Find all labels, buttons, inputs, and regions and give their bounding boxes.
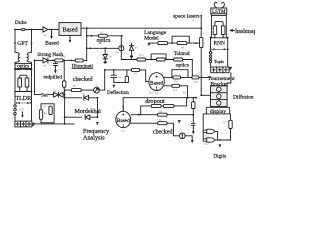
arrow down Based: [51, 30, 53, 37]
resistor R7: [177, 42, 187, 45]
wire diode to node: [48, 59, 55, 61]
block display: [206, 107, 229, 114]
resistor R18: [158, 113, 167, 116]
svg-text:R4: R4: [134, 73, 138, 76]
resistor R19: [158, 122, 167, 125]
resistor R21 vertical: [39, 110, 42, 120]
block LSTM: [211, 8, 227, 14]
node dot GPT right: [31, 42, 33, 44]
wire optics bottom bar: [15, 63, 32, 70]
arrow down under box: [69, 35, 71, 40]
arrow down rowC: [96, 117, 99, 125]
svg-text:R12: R12: [173, 89, 178, 92]
node dot F: [14, 91, 16, 93]
current source I1: [119, 46, 124, 51]
svg-text:Dz: Dz: [54, 90, 58, 93]
wire based2 row1: [131, 114, 193, 116]
block Diffusion stack: [211, 86, 228, 107]
resistor R8 vertical: [200, 37, 203, 47]
diode D3 up: [129, 43, 133, 59]
wire strong nash row start: [35, 59, 44, 61]
svg-text:Talmud: Talmud: [174, 51, 190, 57]
resistor R16b: [164, 104, 175, 107]
wire strip to bottom rail: [32, 123, 35, 125]
svg-text:R4: R4: [183, 92, 187, 95]
wire center drop vertical: [86, 28, 88, 60]
svg-text:VTh: VTh: [19, 108, 24, 111]
dotted terminals topic: [209, 52, 212, 55]
wire optics2 row: [87, 35, 122, 37]
svg-text:C4: C4: [118, 76, 122, 79]
resistor RC: [213, 26, 217, 35]
resistor R3: [99, 34, 108, 37]
svg-text:checked: checked: [73, 77, 93, 83]
hairpin RNN arch: [215, 21, 223, 37]
capacitor C1: [53, 60, 57, 70]
wire based1 right row2: [164, 86, 187, 98]
gate U6: [207, 138, 215, 142]
svg-text:Analysis: Analysis: [83, 134, 105, 141]
svg-text:U5.1: U5.1: [204, 135, 210, 138]
wire set row: [35, 60, 65, 94]
svg-text:Dubs: Dubs: [15, 20, 27, 26]
wire gates out: [215, 131, 231, 140]
arrow ground C2: [112, 83, 115, 88]
svg-text:TVa: TVa: [194, 81, 199, 84]
node dot H: [52, 60, 54, 62]
wire display left down: [203, 114, 207, 141]
resistor RB: [25, 78, 29, 87]
fuse F1: [21, 28, 25, 30]
wire LM row: [149, 42, 200, 44]
resistor R2: [75, 59, 83, 62]
node dot G: [31, 91, 33, 93]
terminal strip left: [15, 121, 32, 127]
resistor R14: [192, 76, 199, 79]
wire cap elbow: [114, 82, 127, 84]
measure arrow RNN: [213, 48, 225, 50]
svg-text:v​th: v​th: [43, 34, 47, 37]
svg-text:ITh: ITh: [115, 51, 119, 54]
wire LSTM sides: [211, 14, 226, 38]
wire RNN top bar: [211, 37, 228, 39]
node dot E: [31, 69, 33, 71]
svg-text:U5.2: U5.2: [204, 143, 210, 146]
label hashmap: [230, 30, 234, 32]
svg-text:GPT: GPT: [17, 41, 28, 47]
wire R2 to vertical: [83, 59, 87, 61]
svg-text:R17: R17: [223, 121, 228, 124]
node dot C: [51, 29, 53, 31]
resistor R15: [172, 84, 180, 87]
arrow ground D2: [104, 61, 107, 63]
wire GPT left vertical: [14, 30, 16, 53]
resistor R6: [158, 42, 168, 45]
svg-text:v​th: v​th: [43, 64, 47, 67]
arrow down LM: [148, 41, 151, 46]
arrow blob D3: [130, 55, 133, 57]
tiny tie symbol: [22, 68, 25, 70]
node dot K: [195, 42, 197, 44]
arrow ground row1: [178, 115, 181, 124]
wire top rail: [81, 27, 201, 29]
svg-text:checked: checked: [153, 129, 173, 135]
svg-text:Da: Da: [109, 56, 113, 59]
wire dropout top: [123, 98, 196, 112]
svg-text:R1: R1: [64, 56, 68, 59]
resistor R13b: [173, 76, 181, 79]
svg-text:space lasers: space lasers: [173, 14, 200, 20]
ground ticks: [229, 67, 231, 69]
block Based box: [59, 23, 81, 36]
svg-text:v​th: v​th: [82, 92, 86, 95]
block set box: [41, 104, 54, 123]
node dot wireA end: [195, 97, 197, 99]
resistor R20 vertical: [49, 106, 52, 114]
svg-text:R14: R14: [174, 81, 179, 84]
node dot redpilled: [63, 60, 65, 62]
wire display right down: [229, 114, 232, 140]
diode D5: [85, 115, 90, 120]
svg-text:R9: R9: [73, 85, 77, 88]
wire checked row: [65, 89, 105, 91]
hook strip to stack: [227, 73, 231, 86]
svg-text:optics: optics: [97, 38, 112, 44]
wire row B: [65, 97, 98, 99]
svg-text:R16: R16: [149, 92, 154, 95]
source I2: [94, 87, 100, 93]
wire mordekhai left vertical: [64, 90, 66, 124]
svg-text:Set: Set: [41, 93, 48, 99]
svg-text:display: display: [210, 109, 226, 115]
diode D2 down: [104, 47, 106, 49]
wire based2 row2: [130, 123, 179, 136]
hump talmud: [151, 54, 166, 60]
wire source down to talmud row: [121, 51, 137, 60]
svg-text:R8: R8: [181, 46, 185, 49]
transformer optics left coil: [15, 52, 19, 62]
wire LM hump: [172, 36, 189, 43]
wire TLDR bottom bar: [15, 91, 32, 93]
svg-text:Deflection: Deflection: [107, 89, 129, 96]
arrow tip capline: [192, 131, 195, 134]
resistor R17 vertical: [192, 102, 195, 109]
resistor R10: [137, 58, 146, 61]
node dot D: [14, 69, 16, 71]
measure arrow TLDR: [17, 102, 30, 104]
svg-text:TLDR: TLDR: [15, 96, 31, 102]
svg-text:wt: wt: [135, 46, 138, 49]
wire redpilled vertical: [63, 60, 65, 90]
wire right rail to strip: [31, 92, 33, 122]
resistor R16: [151, 104, 161, 107]
svg-text:R13: R13: [139, 54, 144, 57]
svg-text:1: 1: [155, 86, 157, 91]
resistor R11: [156, 58, 165, 61]
wire based1 right row1: [164, 76, 210, 78]
diode D1: [43, 58, 48, 63]
svg-text:Based: Based: [62, 27, 78, 34]
label optics: [15, 64, 32, 69]
arrow ground checked3: [185, 136, 192, 141]
wire top-left horizontal: [15, 29, 43, 31]
wire row C: [65, 98, 98, 117]
node dot B: [31, 29, 33, 31]
wire dropout row B: [141, 98, 187, 115]
svg-text:C1: C1: [59, 64, 63, 67]
capacitor C2: [111, 70, 116, 83]
svg-text:IT1: IT1: [121, 130, 125, 133]
svg-text:Digits: Digits: [213, 153, 226, 159]
resistor R5 vertical: [125, 76, 128, 82]
wire RNN sides: [211, 38, 228, 67]
hump row1: [172, 70, 188, 78]
diode pair facing: [54, 92, 64, 97]
resistor Rp vertical: [63, 81, 66, 87]
wire buffer to Based box: [48, 29, 59, 31]
arrow down digits: [219, 140, 222, 148]
node dot J: [171, 42, 173, 44]
svg-text:IT3: IT3: [155, 92, 159, 95]
svg-text:Diffusion: Diffusion: [233, 94, 254, 101]
arrow ground C1: [54, 70, 57, 73]
resistor R9: [71, 89, 81, 92]
node dot I: [70, 60, 72, 62]
resistor pair hairpin arch: [20, 75, 27, 91]
node dot A: [14, 29, 16, 31]
svg-text:RNN: RNN: [214, 41, 225, 47]
svg-text:I7b: I7b: [95, 85, 99, 88]
svg-text:redpilled: redpilled: [44, 75, 63, 81]
svg-text:Illuminati: Illuminati: [72, 63, 94, 69]
resistor R1: [55, 59, 63, 62]
svg-text:Model: Model: [144, 36, 159, 42]
curls above LSTM: [214, 2, 217, 8]
svg-text:hashmap: hashmap: [235, 29, 255, 35]
source I3: [179, 133, 185, 139]
wire R1 to R2: [63, 59, 75, 61]
dotted terminals left: [14, 92, 16, 105]
diode D4: [84, 95, 89, 100]
svg-text:LSTM: LSTM: [212, 10, 226, 15]
arrow down VTh: [22, 112, 24, 116]
transformer optics right coil: [27, 52, 31, 62]
svg-text:Topic: Topic: [214, 59, 224, 64]
wire deflection row: [105, 70, 149, 82]
wire row y48: [87, 47, 119, 49]
resistor R12: [174, 58, 183, 61]
wire optics2 down to source: [120, 36, 122, 46]
wire GPT right vertical: [31, 30, 33, 53]
node dot GPT left: [14, 42, 16, 44]
resistor RD: [221, 26, 225, 35]
source Based2: [122, 106, 124, 112]
svg-text:1: 1: [122, 123, 124, 128]
terminal strip right: [211, 67, 229, 73]
buffer amp U1: [43, 27, 48, 32]
resistor RA: [18, 78, 22, 87]
resistor R4: [132, 68, 140, 71]
wire talmud row: [146, 60, 193, 76]
gate U5: [207, 129, 215, 133]
wire down to TLDR rails: [15, 69, 32, 91]
wire into stack left: [201, 94, 210, 96]
wire checked up vertical: [104, 70, 106, 90]
svg-text:Based: Based: [45, 41, 59, 47]
source Based1: [149, 73, 164, 91]
svg-text:optics: optics: [176, 62, 189, 68]
svg-text:optics: optics: [17, 65, 29, 70]
wire space lasers vertical: [200, 16, 202, 38]
capacitor Cc vertical: [192, 115, 195, 132]
resistor R22 vertical: [229, 120, 232, 128]
